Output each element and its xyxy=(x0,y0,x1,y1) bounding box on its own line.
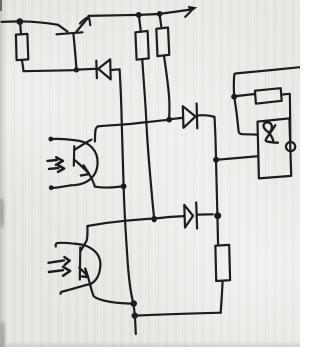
node J8 gate input B junction xyxy=(213,157,219,163)
diode D2 cathode bar xyxy=(196,104,199,129)
optocoupler U3 collector line xyxy=(81,226,88,251)
resistor R5 bottom lead xyxy=(221,281,223,313)
gate U1 ampersand label stroke 2 xyxy=(264,122,274,140)
wire opto U2 collector to D2 xyxy=(98,120,169,127)
optocoupler U2 lower-left stub xyxy=(53,185,71,188)
transistor Q1 emitter arrowhead xyxy=(80,17,90,25)
transistor Q1 collector xyxy=(58,25,68,32)
resistor R3 bottom lead xyxy=(164,56,169,119)
diode D3 triangle xyxy=(184,205,193,228)
gate U1 output inversion bubble xyxy=(286,142,295,151)
diode D1 triangle xyxy=(98,59,111,79)
resistor R2 top lead xyxy=(139,15,141,32)
optocoupler U3 light arrow 1 xyxy=(49,260,65,262)
transistor Q1 base lead xyxy=(74,35,77,70)
wire gate input A xyxy=(234,97,257,135)
wire opto U3 collector to D3 anode xyxy=(87,216,184,226)
node J4 base/D1 junction xyxy=(74,67,79,72)
optocoupler U2 emitter exit lead xyxy=(89,175,94,187)
wire R1 to base node xyxy=(24,70,76,71)
node J11 bottom rail junction xyxy=(132,312,138,318)
optocoupler U2 collector line xyxy=(74,140,91,150)
wire D3 to middle vertical xyxy=(197,213,212,216)
resistor R3 top lead xyxy=(160,14,162,28)
arrowhead rail output arrow xyxy=(188,6,198,13)
resistor R4 body xyxy=(255,88,282,104)
wire D1 to vertical line xyxy=(111,68,119,71)
diode D2 triangle xyxy=(183,106,196,128)
optocoupler U2 envelope arc xyxy=(71,141,98,186)
transistor Q1 emitter xyxy=(77,18,89,32)
paper edge mark top-left xyxy=(0,0,2,11)
node J9 D3 cathode junction xyxy=(214,212,221,219)
resistor R2 body xyxy=(135,31,148,60)
wire rail to Q1 collector xyxy=(20,21,58,25)
wire rail arrow segment xyxy=(160,10,191,14)
optocoupler U3 emitter arrowhead xyxy=(82,269,88,277)
wire feedback loop top xyxy=(234,67,300,96)
node J7 R2 lead junction blob xyxy=(152,216,157,223)
optocoupler U2 base bar xyxy=(73,146,76,165)
node J5 R3/D2 junction xyxy=(166,117,172,123)
resistor R1 body xyxy=(16,34,28,60)
wire rail J2 to J3 xyxy=(139,13,160,16)
wire top rail left segment xyxy=(2,20,20,23)
wire U2 emitter to vertical line xyxy=(95,186,123,187)
optocoupler U3 base bar xyxy=(79,248,82,280)
optocoupler U2 upper-left terminal dot xyxy=(48,137,53,142)
optocoupler U2 light arrow 2 xyxy=(49,167,59,170)
resistor R4 right lead xyxy=(281,93,289,96)
wire top rail right of Q1 xyxy=(89,15,139,16)
node J10 opto emitter junction xyxy=(130,300,137,307)
resistor R5 body xyxy=(215,245,230,281)
wire R4 to gate output bubble xyxy=(289,94,292,141)
optocoupler U3 upper-left stub xyxy=(56,243,76,247)
optocoupler U2 collector exit lead xyxy=(95,126,99,141)
optocoupler U3 envelope arc xyxy=(76,244,100,285)
resistor R4 left lead xyxy=(236,94,255,96)
diode D1 cathode bar xyxy=(95,61,98,78)
transistor Q1 base bar xyxy=(57,32,83,34)
gate U1 ampersand label stroke 1 xyxy=(266,125,278,142)
resistor R1 bottom lead xyxy=(22,60,24,71)
resistor R2 bottom lead long xyxy=(142,59,154,217)
node J1 rail/R1 junction xyxy=(16,18,23,25)
optocoupler U3 light arrow 2 xyxy=(49,270,63,272)
node J2 rail/R2 junction xyxy=(136,12,142,18)
optocoupler U2 upper-left stub xyxy=(53,139,78,141)
optocoupler U2 lower-left terminal dot xyxy=(49,185,54,190)
optocoupler U2 light arrow 1 xyxy=(48,159,58,162)
diode D2 anode wire xyxy=(171,118,183,119)
resistor R1 top lead xyxy=(20,21,21,34)
node J3 rail/R3 junction xyxy=(157,11,163,17)
node J6 U2 emitter junction xyxy=(121,183,127,189)
wire gate input B xyxy=(217,156,257,160)
optocoupler U2 emitter line xyxy=(74,160,87,172)
wire middle vertical line xyxy=(215,117,219,246)
wire bottom rail xyxy=(135,313,221,316)
resistor R3 body xyxy=(156,28,169,57)
wire long vertical from D1 to bottom xyxy=(120,69,136,334)
wire D2 to middle vertical xyxy=(198,115,215,117)
gate U1 body xyxy=(258,118,292,178)
diode D1 anode wire xyxy=(78,68,96,71)
diode D3 cathode bar xyxy=(195,203,198,229)
optocoupler U3 emitter line xyxy=(79,268,87,276)
node J12 gate input A / R4 junction xyxy=(231,94,237,100)
optocoupler U2 emitter arrowhead xyxy=(81,165,89,175)
optocoupler U3 lower-left stub xyxy=(61,285,87,294)
optocoupler U3 emitter exit lead xyxy=(88,277,132,303)
